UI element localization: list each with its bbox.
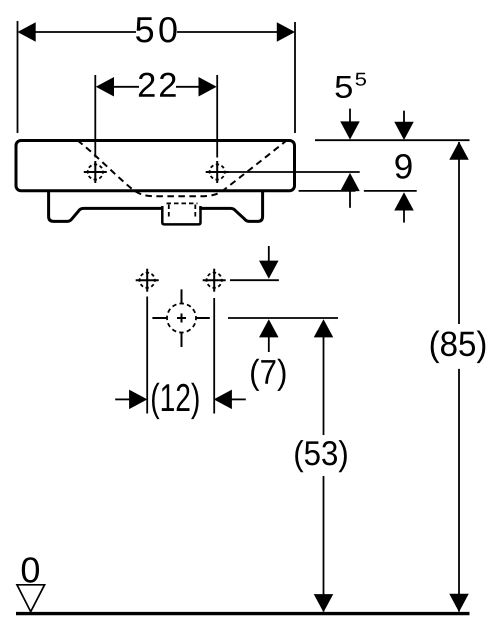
fixing hole level stub line [230, 279, 279, 281]
drain trap box [162, 205, 200, 225]
dimension 85 label [431, 331, 486, 364]
dimension 22 line [112, 86, 202, 88]
dimension 50 extension line right [294, 22, 296, 133]
dimension 50 line [34, 31, 278, 33]
dimension 85 down arrow [449, 594, 469, 612]
dimension 22 label [139, 73, 176, 97]
dimension 53 up arrow [314, 319, 334, 337]
dimension 50 extension line left [17, 21, 19, 133]
basin bottom level line [299, 190, 417, 192]
fixing hole left extension line [146, 297, 148, 414]
washbasin bowl dashed outline [78, 141, 287, 197]
dimension 9 up arrow [394, 192, 414, 222]
dimension 50 label [136, 17, 177, 43]
datum zero label [22, 557, 39, 583]
dimension 22 arrow right [199, 77, 217, 97]
siphon circle [152, 289, 209, 347]
fixing hole right [203, 269, 226, 292]
washbasin body outline [16, 141, 295, 191]
dimension 85 up arrow [449, 142, 469, 160]
floor line [16, 612, 470, 615]
siphon level line [228, 317, 338, 319]
dimension 7 up arrow [259, 319, 279, 352]
datum triangle [17, 585, 45, 612]
dimension 9 label [395, 154, 411, 179]
dimension 9 down arrow [394, 111, 414, 140]
dimension 5.5 up arrow [340, 173, 360, 208]
dimension 12 line left with arrow [115, 390, 147, 410]
dimension 50 arrow right [277, 22, 295, 42]
dimension 53 label [295, 440, 347, 472]
tap hole left [84, 161, 107, 183]
dimension 5.5 down arrow [340, 109, 360, 140]
tap hole right [206, 161, 229, 183]
dimension 12 label [152, 383, 199, 419]
tap hole level leader line [229, 171, 360, 173]
dimension 5.5 label [336, 73, 367, 98]
dimension 22 extension line right [216, 75, 218, 158]
rim level reference line [315, 139, 470, 141]
fixing hole right extension line [213, 298, 215, 414]
dimension 50 arrow left [18, 22, 36, 42]
dimension 7 down arrow [259, 246, 279, 279]
dimension 12 line right with arrow [214, 390, 246, 410]
dimension 22 extension line left [94, 75, 96, 158]
drain pipe hidden lines [167, 203, 198, 219]
dimension 85 line [458, 142, 460, 612]
dimension 53 line [323, 335, 325, 611]
dimension 22 arrow left [96, 77, 114, 97]
dimension 7 label [251, 359, 285, 391]
fixing hole left [136, 269, 159, 292]
trap cover / feet outline [49, 191, 263, 222]
dimension 53 down arrow [314, 594, 334, 612]
